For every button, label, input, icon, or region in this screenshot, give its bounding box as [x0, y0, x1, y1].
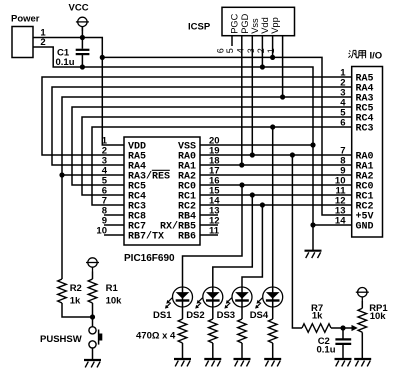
capacitor C2	[335, 328, 351, 359]
VCC symbol top	[76, 17, 89, 31]
potentiometer RP1	[358, 308, 367, 332]
wire IC pin19 to conn pin7	[200, 154, 352, 156]
ground GND rail	[305, 251, 322, 258]
wire DS4 resistor to ground	[272, 343, 274, 359]
wire RC4 net conn pin5 to IC pin6	[82, 117, 352, 195]
junction GND at C1 bottom	[80, 64, 85, 69]
svg-text:DS1: DS1	[153, 310, 172, 321]
wire RC3 net conn pin6 to IC pin7	[92, 127, 352, 205]
ground under PUSHSW	[84, 360, 101, 367]
VCC symbol at RP1	[356, 288, 369, 302]
svg-text:PUSHSW: PUSHSW	[40, 334, 82, 345]
svg-text:1k: 1k	[312, 311, 323, 322]
wire R7 to node	[331, 327, 343, 329]
svg-text:Vdd: Vdd	[260, 17, 270, 34]
junction RA3-reset branch	[59, 172, 64, 177]
wire IC pin12 stub	[200, 224, 218, 226]
wire R2 bottom	[62, 303, 93, 317]
svg-text:PIC16F690: PIC16F690	[124, 253, 175, 264]
wire RA4 net conn pin2 to IC pin3	[52, 87, 352, 165]
wire RC5 net conn pin4 to IC pin5	[72, 107, 352, 185]
svg-text:6: 6	[340, 118, 345, 129]
wire RC3 to DS4	[272, 127, 274, 319]
resistor R2	[58, 279, 67, 303]
wire ICSP pin2 Vdd to VCC	[272, 36, 274, 58]
wire RC2 to DS3	[242, 205, 262, 319]
wire RA3 to R2	[61, 175, 63, 279]
junction GND-conn pin14	[310, 222, 315, 227]
wire DS2 resistor to ground	[212, 343, 214, 359]
svg-text:DS3: DS3	[217, 310, 235, 321]
svg-text:1: 1	[266, 48, 276, 53]
svg-text:14: 14	[335, 216, 346, 227]
wire ICSP pin1 Vpp to RA3	[282, 36, 284, 97]
svg-text:10k: 10k	[106, 296, 123, 307]
junction Vpp-RA3	[280, 94, 285, 99]
LED DS4	[255, 287, 283, 309]
svg-text:5: 5	[225, 48, 235, 53]
wire VCC to R1	[92, 272, 94, 280]
wire RA3 net conn pin3 to IC pin4	[62, 97, 352, 175]
wire VCC to RP1	[361, 301, 363, 308]
ground under DS1 resistor	[174, 359, 191, 366]
svg-text:3: 3	[246, 48, 256, 53]
wire RA0 to R7	[292, 155, 302, 328]
ground under C2	[335, 359, 352, 366]
junction RC0-DS1	[239, 182, 244, 187]
svg-text:R1: R1	[106, 283, 119, 294]
op-amp U1 PIC16F690 body	[124, 137, 200, 245]
resistor R7	[302, 324, 331, 333]
svg-text:1k: 1k	[70, 296, 81, 307]
junction VCC rail at IC VDD drop	[100, 55, 105, 60]
junction RC2-DS3	[260, 202, 265, 207]
wire IC pin18 to conn pin8	[200, 164, 352, 166]
svg-text:ICSP: ICSP	[188, 22, 211, 33]
wire IC pin16 to conn pin10	[200, 184, 352, 186]
junction VCC node	[80, 35, 85, 40]
wire conn pin14 GND	[313, 224, 352, 226]
resistor 470 ohm for DS1	[178, 319, 187, 343]
wire power pin2 GND rail	[33, 47, 313, 251]
wire DS3 resistor to ground	[241, 343, 243, 359]
connector CN 汎用I/O body	[352, 67, 383, 238]
label 汎用 I/O (kanji drawn as paths)	[348, 50, 365, 58]
svg-text:4: 4	[236, 48, 246, 53]
wire IC pin8 stub	[104, 214, 124, 216]
junction RC1-DS2	[250, 192, 255, 197]
resistor 470 ohm for DS4	[268, 319, 277, 343]
svg-text:Vss: Vss	[250, 18, 260, 34]
LED DS3	[224, 287, 252, 309]
svg-text:0.1u: 0.1u	[317, 345, 336, 356]
ground under RP1	[354, 359, 371, 366]
svg-text:DS4: DS4	[250, 310, 269, 321]
wire IC pin11 stub	[200, 234, 218, 236]
svg-text:R2: R2	[70, 283, 82, 294]
wire VCC rail to +5V pin13	[102, 57, 351, 215]
svg-text:DS2: DS2	[186, 310, 204, 321]
junction RC3-DS4 branch	[270, 124, 275, 129]
wire VCC symbol to node	[81, 27, 83, 38]
svg-text:I/O: I/O	[370, 50, 383, 61]
svg-text:RC3: RC3	[356, 124, 374, 135]
wire IC pin20 VSS to GND vertical	[200, 144, 313, 146]
LED DS2	[195, 287, 223, 309]
wire power pin1 to VCC node to IC pin1 VDD	[33, 38, 124, 146]
wire ICSP pin3 Vss to GND	[261, 36, 263, 67]
ground under DS2 resistor	[204, 359, 221, 366]
wire IC pin9 stub	[104, 224, 124, 226]
resistor 470 ohm for DS3	[238, 319, 247, 343]
wire DS1 resistor to ground	[182, 343, 184, 359]
svg-text:470Ω x 4: 470Ω x 4	[136, 331, 176, 342]
resistor R1	[88, 279, 97, 303]
resistor 470 ohm for DS2	[209, 319, 218, 343]
connector J1 Power	[12, 27, 33, 58]
wire RC0 to DS1	[183, 185, 243, 319]
connector ICSP	[222, 7, 295, 35]
svg-text:Power: Power	[11, 14, 40, 25]
junction PGD-RA0	[250, 152, 255, 157]
wire ICSP pin4 PGD to RA0	[251, 36, 253, 155]
wire IC pin13 stub	[200, 214, 218, 216]
VCC symbol at R1	[86, 258, 99, 272]
wire ICSP pin6 stub NC	[231, 36, 233, 46]
svg-text:Vpp: Vpp	[270, 17, 280, 34]
junction R7-C2-wiper node	[340, 325, 345, 330]
wire IC pin15 to conn pin11	[200, 194, 352, 196]
wire RP1 to ground	[361, 332, 363, 359]
wire RA5 net conn pin1 to IC pin2	[42, 77, 352, 155]
potentiometer wiper arrow	[343, 325, 358, 331]
junction Vdd-VCC	[270, 55, 275, 60]
svg-text:10k: 10k	[370, 311, 387, 322]
wire IC pin17 to conn pin9	[200, 174, 352, 176]
junction Vss-GND	[260, 64, 265, 69]
ground under DS3 resistor	[234, 359, 251, 366]
wire RC1 to DS2	[213, 195, 253, 319]
overline on RES of RA3/RES	[152, 169, 170, 171]
svg-text:6: 6	[215, 48, 225, 53]
wire IC pin14 to conn pin12	[200, 204, 352, 206]
capacitor C1	[76, 38, 90, 68]
wire R1 bottom	[92, 303, 94, 317]
LED DS1	[165, 287, 193, 309]
svg-text:2: 2	[256, 48, 266, 53]
svg-text:PGC: PGC	[229, 13, 239, 33]
svg-text:PGD: PGD	[240, 13, 250, 33]
junction VSS-GND vertical	[310, 142, 315, 147]
wire ICSP pin5 PGC to RA1	[241, 36, 243, 165]
svg-text:RB7/TX: RB7/TX	[128, 231, 164, 243]
wire IC pin10 stub	[104, 234, 124, 236]
ground under DS4 resistor	[264, 359, 281, 366]
svg-text:VCC: VCC	[69, 3, 89, 14]
junction PGC-RA1	[239, 162, 244, 167]
junction RA0-pot branch	[290, 152, 295, 157]
svg-text:RB6: RB6	[178, 232, 196, 243]
junction R1-R2-switch node	[90, 314, 95, 319]
switch PUSHSW	[89, 317, 102, 360]
svg-text:GND: GND	[356, 222, 374, 233]
